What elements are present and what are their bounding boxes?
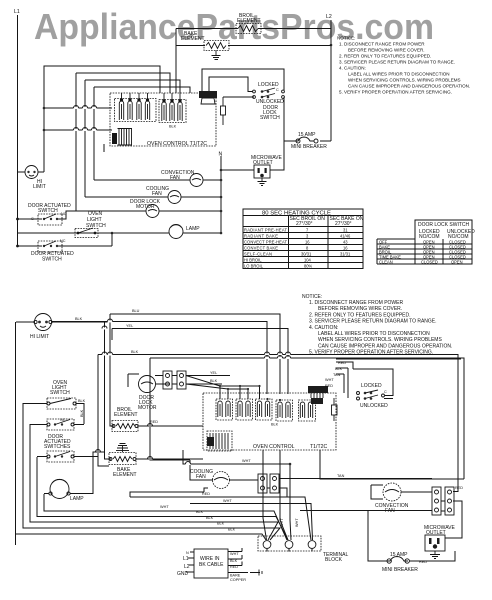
svg-text:BLK: BLK: [80, 409, 84, 417]
svg-text:CAN CAUSE IMPROPER AND DANGERO: CAN CAUSE IMPROPER AND DANGEROUS OPERATI…: [318, 343, 452, 349]
connector hatched right: [308, 386, 328, 404]
svg-text:UNLOCKED: UNLOCKED: [360, 403, 388, 409]
svg-text:SELF-CLEAN: SELF-CLEAN: [244, 251, 272, 256]
wire relay stubs top: [122, 93, 181, 101]
svg-text:15 AMP: 15 AMP: [298, 132, 316, 138]
svg-text:WHT: WHT: [280, 518, 284, 527]
connector block top: [199, 91, 217, 104]
wire microwave outlet top: [221, 141, 284, 170]
svg-text:WHEN SERVICING CONTROLS. WIRIN: WHEN SERVICING CONTROLS. WIRING PROBLEMS: [348, 78, 461, 83]
table 80 sec heating cycle: [243, 209, 364, 269]
svg-text:104: 104: [304, 257, 312, 262]
svg-text:ELEMENT: ELEMENT: [237, 18, 261, 24]
relays bottom: [216, 399, 316, 427]
svg-text:16: 16: [343, 245, 348, 250]
svg-text:LO BROIL: LO BROIL: [244, 263, 264, 268]
oven control box top: [110, 93, 216, 147]
svg-text:ELEMENT: ELEMENT: [114, 412, 138, 418]
wire labels right of control: [325, 361, 346, 388]
wire bottom buses: [16, 403, 313, 540]
svg-text:BLK: BLK: [78, 399, 86, 403]
svg-text:SWITCH: SWITCH: [260, 115, 280, 121]
svg-text:SWITCHES: SWITCHES: [44, 444, 71, 450]
door actuated switch 1 top: [16, 203, 76, 225]
connector block top-left inside box: [104, 129, 132, 153]
wires to door lock switch bottom: [336, 362, 353, 398]
svg-text:31/31: 31/31: [340, 251, 351, 256]
svg-text:DOOR LOCK SWITCH: DOOR LOCK SWITCH: [418, 222, 470, 228]
svg-text:BEFORE REMOVING WIRE COVER.: BEFORE REMOVING WIRE COVER.: [348, 48, 425, 53]
wire top-left nest: [44, 66, 190, 211]
svg-text:HI LIMIT: HI LIMIT: [30, 334, 49, 340]
svg-text:CAN CAUSE IMPROPER AND DANGERO: CAN CAUSE IMPROPER AND DANGEROUS OPERATI…: [348, 84, 470, 89]
cooling fan bottom: [190, 460, 258, 503]
wire broil feed y28: [176, 28, 331, 30]
wires door lock switch loop: [202, 69, 284, 97]
wire breaker line: [284, 97, 331, 141]
svg-text:LOCKED: LOCKED: [361, 383, 382, 389]
svg-text:RADIANT PRE-HEAT: RADIANT PRE-HEAT: [244, 227, 287, 232]
convection fan top: [94, 170, 222, 187]
svg-text:LABEL ALL WIRES PRIOR TO DISCO: LABEL ALL WIRES PRIOR TO DISCONNECTION: [348, 72, 450, 77]
ground bake: [212, 51, 221, 60]
notice block bottom: [302, 294, 452, 356]
svg-text:SWITCH: SWITCH: [50, 390, 70, 396]
door actuated switch 2 top: [16, 233, 112, 263]
svg-text:CONVECT PRE-HEAT: CONVECT PRE-HEAT: [244, 239, 287, 244]
svg-text:WHT: WHT: [230, 552, 239, 556]
svg-text:BLK: BLK: [131, 350, 139, 354]
mini breaker bottom: [382, 552, 427, 573]
convection fan bottom: [371, 483, 432, 514]
svg-text:16: 16: [305, 239, 310, 244]
svg-text:L2: L2: [184, 564, 190, 570]
terminal block: [258, 518, 349, 563]
table door lock switch: [377, 220, 475, 264]
svg-text:WHT: WHT: [242, 459, 251, 463]
svg-text:LAMP: LAMP: [186, 226, 200, 232]
svg-text:41/46: 41/46: [340, 233, 351, 238]
wire right nest corners: [336, 355, 461, 360]
svg-text:5. VERIFY PROPER OPERATION AFT: 5. VERIFY PROPER OPERATION AFTER SERVICI…: [339, 90, 452, 95]
svg-text:MOTOR: MOTOR: [138, 405, 157, 411]
svg-text:1. DISCONNECT RANGE FROM POWER: 1. DISCONNECT RANGE FROM POWER: [339, 42, 425, 47]
svg-text:BLU: BLU: [132, 309, 140, 313]
svg-text:N: N: [186, 551, 189, 555]
svg-text:43: 43: [343, 239, 348, 244]
svg-text:WHT: WHT: [295, 518, 299, 527]
svg-text:RED: RED: [325, 384, 333, 388]
svg-text:MINI BREAKER: MINI BREAKER: [382, 567, 418, 573]
svg-text:BLOCK: BLOCK: [325, 557, 343, 563]
junction L2/bake: [330, 44, 333, 47]
svg-text:L2: L2: [326, 14, 332, 20]
relays top group2: [159, 100, 186, 129]
wire L1 vertical: [17, 15, 19, 246]
wire L2 vertical: [330, 20, 332, 141]
svg-text:C: C: [384, 390, 387, 394]
wire top buses bottom: [52, 309, 464, 492]
svg-text:NOTICE:: NOTICE:: [302, 294, 322, 300]
oven control box bottom: [203, 393, 336, 450]
svg-text:ELEMENT: ELEMENT: [181, 36, 205, 42]
door lock motor bottom: [128, 374, 170, 411]
door actuated switch 1 bottom: [30, 418, 84, 450]
svg-text:L1: L1: [14, 9, 20, 15]
svg-text:LAMP: LAMP: [70, 496, 84, 502]
svg-text:4. CAUTION:: 4. CAUTION:: [339, 66, 366, 71]
svg-text:LIMIT: LIMIT: [33, 184, 46, 190]
microwave outlet bottom: [424, 525, 455, 559]
svg-text:BK CABLE: BK CABLE: [199, 562, 224, 568]
bake element R-top: [181, 31, 229, 51]
svg-text:TAN: TAN: [337, 474, 345, 478]
door lock switch top: [248, 82, 284, 121]
wires outlet/breaker bottom: [368, 511, 455, 562]
svg-text:RED: RED: [455, 486, 463, 490]
svg-text:30/31: 30/31: [301, 251, 312, 256]
wire relay feeds y108 y130: [44, 108, 112, 130]
svg-text:BLK: BLK: [169, 125, 177, 129]
svg-text:OVEN CONTROL T1/T2C: OVEN CONTROL T1/T2C: [147, 141, 207, 147]
connector hatched bottom: [207, 431, 232, 451]
wire in bk cable box: [177, 549, 262, 582]
svg-text:LABEL ALL WIRES PRIOR TO DISCO: LABEL ALL WIRES PRIOR TO DISCONNECTION: [318, 331, 430, 337]
svg-text:SWITCH: SWITCH: [38, 208, 58, 214]
svg-text:BLK: BLK: [271, 423, 279, 427]
svg-text:HI BROIL: HI BROIL: [244, 257, 262, 262]
wire bake feed y45: [176, 29, 331, 94]
svg-text:NOTICE:: NOTICE:: [337, 36, 355, 41]
svg-text:2. REFER ONLY TO FEATURES EQUI: 2. REFER ONLY TO FEATURES EQUIPPED.: [339, 54, 431, 59]
lamp bottom: [44, 452, 105, 502]
fuse top: [221, 97, 226, 125]
svg-text:BLK: BLK: [230, 559, 238, 563]
svg-text:YEL: YEL: [210, 371, 217, 375]
oven light switch top: [75, 211, 106, 238]
svg-text:SWITCH: SWITCH: [42, 257, 62, 263]
svg-text:C: C: [276, 88, 279, 92]
svg-text:OPEN: OPEN: [451, 259, 463, 264]
svg-text:CLEAN: CLEAN: [379, 259, 393, 264]
svg-text:WHT: WHT: [325, 378, 334, 382]
svg-text:RADIANT BAKE: RADIANT BAKE: [244, 233, 278, 238]
svg-text:CLOSED: CLOSED: [421, 259, 438, 264]
microwave outlet top: [251, 155, 282, 186]
svg-text:COPPER: COPPER: [230, 578, 246, 582]
broil element bottom: [112, 407, 203, 432]
mini breaker top: [291, 132, 327, 150]
svg-text:ELEMENT: ELEMENT: [113, 472, 137, 478]
svg-text:WHT: WHT: [223, 499, 232, 503]
svg-text:27°/30°: 27°/30°: [296, 221, 313, 227]
wire left vertical bottom: [15, 322, 17, 545]
wire convection links: [300, 492, 462, 538]
connector blocks right: [432, 487, 454, 515]
hi limit top: [18, 166, 46, 191]
bake element bottom: [109, 444, 203, 479]
svg-text:2. REFER ONLY TO FEATURES EQUI: 2. REFER ONLY TO FEATURES EQUIPPED.: [309, 312, 411, 318]
cooling fan top: [85, 186, 222, 204]
lamp top: [18, 225, 223, 239]
wire hops top: [74, 106, 97, 131]
oven light switch bottom: [23, 380, 86, 424]
svg-text:3. SERVICER PLEASE RETURN DIAG: 3. SERVICER PLEASE RETURN DIAGRAM TO RAN…: [339, 60, 455, 65]
svg-text:1. DISCONNECT RANGE FROM POWER: 1. DISCONNECT RANGE FROM POWER: [309, 300, 403, 306]
svg-text:T1/T2C: T1/T2C: [310, 444, 328, 450]
svg-text:80%: 80%: [304, 263, 313, 268]
svg-text:OVEN CONTROL: OVEN CONTROL: [253, 444, 295, 450]
door actuated switch 2 bottom: [37, 451, 98, 462]
svg-text:RED: RED: [202, 492, 210, 496]
wires cooling links: [130, 479, 432, 498]
svg-text:RED: RED: [150, 420, 158, 424]
svg-text:27°/30°: 27°/30°: [335, 221, 352, 227]
wires terminal feeds: [241, 548, 243, 566]
svg-text:FAN: FAN: [196, 474, 206, 480]
svg-text:WHEN SERVICING CONTROLS. WIRIN: WHEN SERVICING CONTROLS. WIRING PROBLEMS: [318, 337, 442, 343]
svg-text:YEL: YEL: [126, 324, 133, 328]
hi limit bottom: [16, 314, 111, 341]
relays top group1: [115, 99, 157, 122]
svg-text:L1: L1: [183, 556, 189, 562]
connector blocks cooling: [258, 474, 279, 493]
wire hops bottom: [96, 319, 291, 459]
svg-text:BLK: BLK: [75, 317, 83, 321]
svg-text:4. CAUTION:: 4. CAUTION:: [309, 325, 338, 331]
svg-text:BARE: BARE: [230, 574, 241, 578]
svg-text:BEFORE REMOVING WIRE COVER.: BEFORE REMOVING WIRE COVER.: [318, 306, 402, 312]
fuse bottom: [332, 398, 338, 421]
svg-text:3. SERVICER PLEASE RETURN DIAG: 3. SERVICER PLEASE RETURN DIAGRAM TO RAN…: [309, 319, 437, 325]
svg-text:WHT: WHT: [160, 505, 169, 509]
svg-text:BLK: BLK: [210, 379, 218, 383]
door lock switch bottom: [353, 369, 393, 409]
door lock motor top: [76, 199, 222, 218]
broil element R-top: [236, 13, 261, 34]
svg-text:MINI BREAKER: MINI BREAKER: [291, 144, 327, 150]
notice block top: [337, 36, 470, 95]
connector blocks mid: [163, 371, 186, 389]
wire relay drops 2: [186, 376, 260, 400]
svg-text:31: 31: [343, 227, 348, 232]
svg-text:CONVECT BAKE: CONVECT BAKE: [244, 245, 278, 250]
wires into control: [155, 371, 230, 384]
svg-text:FAN: FAN: [152, 191, 162, 197]
